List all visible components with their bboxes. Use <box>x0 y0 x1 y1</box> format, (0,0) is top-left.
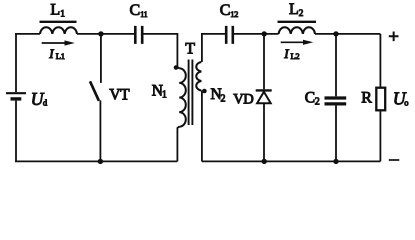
wire right vertical lower <box>379 111 381 161</box>
node junction VD bottom <box>262 159 267 164</box>
svg-text:L1: L1 <box>56 51 65 61</box>
svg-text:2: 2 <box>315 97 320 108</box>
node junction VD top <box>262 31 267 36</box>
node junction VT bottom <box>98 159 103 164</box>
transformer core <box>189 60 193 126</box>
wire top-left rail <box>15 33 40 35</box>
node dot N2 polarity <box>202 89 207 94</box>
diode VD wire upper <box>263 34 265 89</box>
core bar of L2 <box>278 21 317 23</box>
winding N2 <box>196 62 201 91</box>
node junction C2 top <box>333 31 338 36</box>
node junction C2 bottom <box>333 159 338 164</box>
wire bottom-right rail <box>202 160 381 162</box>
svg-text:12: 12 <box>230 9 238 19</box>
source Ud battery short plate <box>11 97 22 100</box>
inductor L1 <box>40 27 77 34</box>
svg-text:C: C <box>305 89 315 106</box>
resistor R <box>376 88 385 111</box>
wire battery to bottom rail <box>15 101 17 162</box>
capacitor C11 <box>135 26 142 44</box>
core bar of L1 <box>40 21 77 23</box>
svg-text:VT: VT <box>109 86 130 103</box>
source Ud battery long plate <box>6 92 26 94</box>
wire L2 to top-right corner <box>315 33 380 35</box>
wire right vertical upper <box>379 34 381 87</box>
winding N1 <box>179 68 186 126</box>
diode VD cathode bar <box>256 89 272 91</box>
left vertical wire <box>15 34 17 92</box>
svg-text:I: I <box>48 46 54 61</box>
svg-text:o: o <box>404 98 408 108</box>
svg-text:d: d <box>43 97 48 107</box>
inductor L2 <box>279 27 315 34</box>
svg-text:L: L <box>289 1 299 18</box>
svg-text:2: 2 <box>299 9 304 19</box>
switch VT lower wire <box>99 100 101 161</box>
wire C11 to transformer primary <box>144 34 180 69</box>
wire N2 top to top rail <box>202 34 225 62</box>
svg-text:2: 2 <box>221 93 226 104</box>
svg-text:L2: L2 <box>291 51 300 61</box>
switch VT blade <box>90 81 99 101</box>
current arrow IL2 <box>281 41 305 43</box>
wire N1 bottom to rail <box>177 127 179 162</box>
svg-text:I: I <box>283 46 289 61</box>
svg-text:C: C <box>130 2 141 19</box>
capacitor C12 <box>226 26 233 44</box>
svg-text:L: L <box>50 1 60 18</box>
svg-text:T: T <box>185 41 195 58</box>
svg-text:R: R <box>361 90 372 107</box>
svg-text:1: 1 <box>162 89 167 100</box>
diode VD wire lower <box>263 103 265 161</box>
svg-text:1: 1 <box>60 9 65 19</box>
capacitor C2 plates <box>325 98 347 104</box>
capacitor C2 wire lower <box>335 106 337 162</box>
minus terminal <box>389 159 400 161</box>
wire N2 bottom to rail <box>201 91 203 162</box>
wire L1 to C11 <box>77 33 134 35</box>
wire bottom-left rail <box>15 160 177 162</box>
wire C12 to L2 <box>234 33 279 35</box>
node junction VT top <box>98 31 103 36</box>
current arrow IL1 <box>42 42 66 44</box>
diode VD triangle <box>257 92 271 104</box>
capacitor C2 wire upper <box>335 34 337 96</box>
switch VT upper wire <box>100 34 102 83</box>
svg-text:VD: VD <box>233 92 253 108</box>
node dot N1 polarity <box>174 65 179 70</box>
svg-text:11: 11 <box>140 10 147 19</box>
svg-text:C: C <box>220 2 231 19</box>
plus terminal <box>389 32 399 42</box>
